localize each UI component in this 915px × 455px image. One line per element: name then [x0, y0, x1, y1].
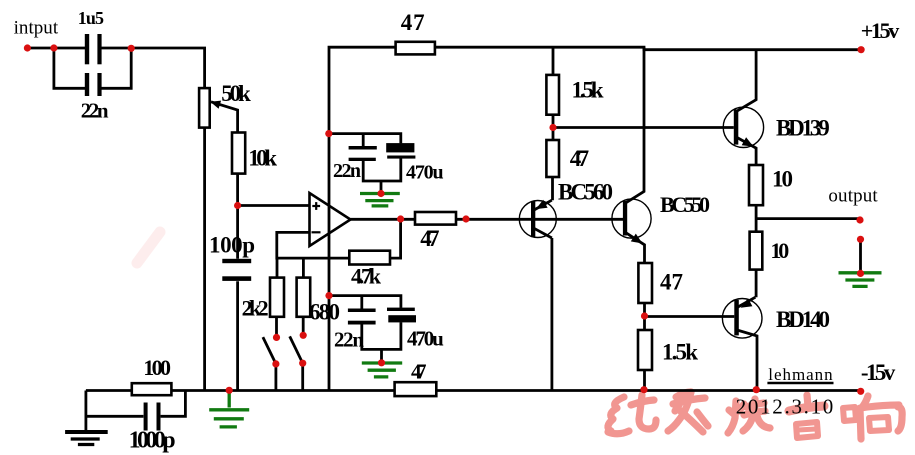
svg-text:47: 47: [660, 270, 683, 295]
svg-text:+15v: +15v: [861, 18, 900, 43]
svg-text:1.5k: 1.5k: [572, 77, 604, 102]
svg-text:470u: 470u: [407, 327, 444, 351]
svg-text:lehmann: lehmann: [768, 365, 833, 384]
svg-text:10k: 10k: [248, 145, 277, 170]
svg-text:1u5: 1u5: [78, 8, 104, 28]
svg-text:47: 47: [570, 146, 589, 171]
svg-text:100p: 100p: [209, 233, 255, 258]
svg-text:470u: 470u: [406, 162, 444, 184]
svg-text:50k: 50k: [221, 81, 251, 106]
svg-text:47: 47: [420, 226, 439, 251]
svg-text:2012.3.10: 2012.3.10: [736, 395, 834, 419]
svg-text:BD140: BD140: [776, 307, 830, 332]
svg-text:4.7k: 4.7k: [351, 264, 382, 289]
svg-text:BC560: BC560: [558, 180, 613, 205]
svg-text:22n: 22n: [334, 328, 364, 352]
svg-text:2k2: 2k2: [242, 296, 269, 321]
svg-text:BC550: BC550: [660, 192, 710, 217]
svg-text:10: 10: [770, 238, 789, 263]
svg-text:47: 47: [411, 359, 427, 383]
svg-text:-15v: -15v: [861, 360, 896, 385]
svg-text:100: 100: [143, 355, 171, 380]
svg-text:22n: 22n: [333, 160, 361, 182]
svg-text:intput: intput: [14, 18, 59, 39]
svg-text:1000p: 1000p: [129, 428, 176, 454]
svg-text:680: 680: [309, 300, 340, 325]
svg-text:47: 47: [401, 10, 425, 35]
svg-text:22n: 22n: [81, 98, 109, 122]
svg-text:1.5k: 1.5k: [662, 340, 698, 365]
svg-text:10: 10: [772, 167, 793, 192]
svg-text:BD139: BD139: [776, 116, 830, 141]
svg-text:output: output: [828, 185, 878, 206]
